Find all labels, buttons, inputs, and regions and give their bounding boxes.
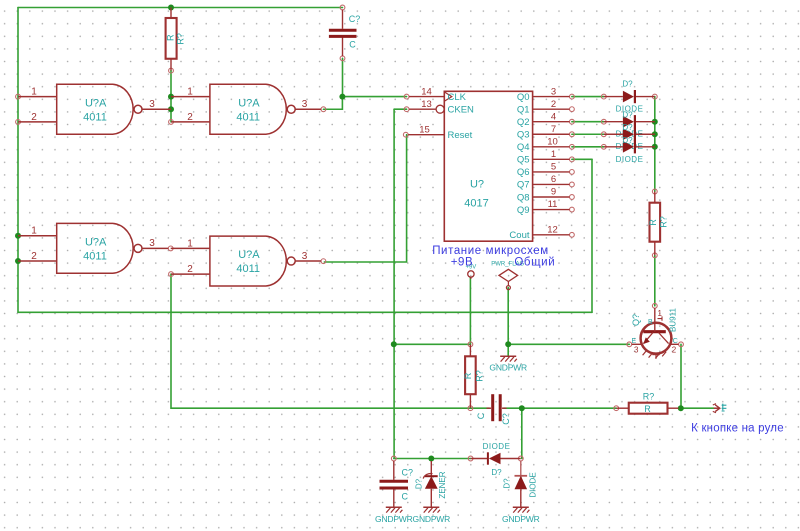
svg-text:BU911: BU911: [668, 308, 677, 332]
capacitor C2 (middle, vertical plates): [476, 394, 511, 425]
junction collector-R node: [678, 405, 684, 411]
svg-text:GNDPWR: GNDPWR: [413, 514, 451, 524]
svg-text:Q6: Q6: [517, 167, 530, 178]
pin numbers: [419, 86, 558, 235]
svg-text:1: 1: [187, 87, 193, 98]
junction gate2 pin1 node: [168, 94, 174, 100]
svg-text:C?: C?: [402, 468, 414, 478]
node C3 top end: [391, 456, 396, 461]
svg-text:E: E: [632, 338, 637, 345]
svg-text:Питание микросхем: Питание микросхем: [432, 245, 549, 257]
node gate4 pin1 end: [168, 246, 173, 251]
wire bottom long horizontal right part: [504, 407, 617, 409]
svg-text:U?A: U?A: [85, 236, 107, 248]
junction CLK node: [339, 94, 345, 100]
svg-text:2: 2: [672, 346, 677, 355]
junction gate1 output node: [168, 106, 174, 112]
node LED3 anode end: [601, 132, 606, 137]
svg-text:Q3: Q3: [517, 130, 530, 141]
svg-text:Q2: Q2: [517, 117, 530, 128]
wire R1 bottom to gate2 inputs: [170, 71, 172, 122]
node C7 bottom end: [340, 56, 345, 61]
svg-text:3: 3: [149, 99, 155, 110]
svg-text:D?: D?: [415, 478, 424, 489]
wire CKEN vertical long: [393, 109, 395, 458]
svg-text:1: 1: [658, 309, 663, 318]
node R3 top end: [652, 189, 657, 194]
LED D4 (row Q4): [604, 136, 655, 164]
svg-text:U?A: U?A: [238, 97, 260, 109]
svg-text:1: 1: [31, 87, 37, 98]
svg-text:2: 2: [31, 112, 37, 123]
svg-text:D?: D?: [622, 80, 633, 89]
LED D1 (row Q0): [604, 80, 655, 114]
node gate1 pin1 end: [16, 94, 21, 99]
junction CKEN-9V node: [391, 341, 397, 347]
junction R1 top: [168, 5, 174, 11]
wire +9V drop: [469, 278, 471, 345]
svg-text:3: 3: [302, 251, 308, 262]
LED D2 (row Q2): [604, 111, 655, 139]
node LED2 anode end: [601, 119, 606, 124]
node R3 bottom end: [652, 253, 657, 258]
svg-text:Q7: Q7: [517, 180, 530, 191]
svg-text:R?: R?: [475, 370, 485, 382]
node gate4 pin2 end: [169, 272, 174, 277]
collector diagonal: [659, 333, 669, 344]
right pins Q0-Q9 and Cout: [533, 97, 570, 235]
pin names: [448, 92, 530, 241]
node D5 left end: [468, 456, 473, 461]
ground GNDPWR (under D6): [502, 507, 540, 524]
svg-text:4011: 4011: [236, 263, 260, 275]
svg-text:Q0: Q0: [517, 92, 530, 103]
pin 15 Reset: [408, 134, 444, 136]
svg-text:1: 1: [187, 238, 193, 249]
svg-text:7: 7: [551, 124, 556, 135]
wire Q3 to LED3: [572, 133, 604, 135]
svg-text:Reset: Reset: [448, 130, 473, 141]
junction LED3 cathode: [652, 131, 658, 137]
svg-text:15: 15: [419, 124, 430, 135]
wire Q5 stub: [572, 158, 592, 160]
wire LED cathodes vertical: [654, 97, 656, 192]
diode D6 (bottom right vertical): [503, 461, 538, 507]
node gate4 output end: [321, 259, 326, 264]
node LED1 cathode end: [601, 144, 606, 149]
bottom hatches: [643, 350, 667, 358]
wire bottom long horizontal left part: [171, 407, 490, 409]
svg-text:C?: C?: [349, 14, 361, 24]
svg-text:GNDPWR: GNDPWR: [502, 514, 540, 524]
capacitor C1 (top): [329, 10, 360, 57]
svg-text:C: C: [673, 338, 678, 345]
collector pin: [671, 343, 679, 345]
ground GNDPWR (under C3): [375, 507, 413, 524]
ground GNDPWR (under zener): [413, 507, 451, 524]
wire gate2 output to CLK: [323, 97, 406, 110]
NAND gate U1B 4011 (top-second): [171, 84, 321, 134]
junction zener top: [428, 456, 434, 462]
svg-text:К кнопке на руле: К кнопке на руле: [691, 423, 784, 435]
svg-text:DIODE: DIODE: [616, 155, 644, 164]
svg-text:D?: D?: [491, 468, 502, 477]
svg-text:3: 3: [551, 86, 556, 97]
node R2 bottom end: [468, 406, 473, 411]
svg-text:4011: 4011: [236, 111, 260, 123]
NAND gate U1A 4011 (top-left): [18, 84, 171, 134]
svg-text:C: C: [476, 412, 486, 419]
node LED4 anode end: [652, 94, 657, 99]
node LED1 anode end: [601, 94, 606, 99]
IC U2 4017: [408, 86, 569, 241]
svg-text:Q1: Q1: [517, 104, 530, 115]
junction gate3 pin2 node: [15, 258, 21, 264]
node CKEN pin end: [404, 107, 409, 112]
wire Q5 vertical: [591, 159, 593, 312]
wire +9V to R mid horizontal: [394, 343, 471, 345]
svg-text:B: B: [648, 319, 653, 326]
svg-text:4017: 4017: [464, 198, 488, 210]
node R4 left end: [614, 406, 619, 411]
NAND gate U1D 4011 (bottom-second): [171, 236, 322, 286]
base pin: [654, 308, 656, 332]
wire C2 drop: [521, 408, 523, 458]
node collector end: [679, 342, 684, 347]
pin 13 CKEN: [409, 108, 436, 110]
node base end: [652, 303, 657, 308]
svg-text:10: 10: [547, 137, 558, 148]
junction C2 top: [519, 405, 525, 411]
NAND gate U1C 4011 (bottom-left): [18, 223, 168, 273]
power symbol +9V: [465, 264, 476, 279]
svg-text:12: 12: [547, 225, 558, 236]
node gate2 output end: [321, 107, 326, 112]
svg-text:R: R: [463, 372, 473, 379]
svg-text:GNDPWR: GNDPWR: [375, 514, 413, 524]
ground GNDPWR (mid, under PWR_FLAG): [489, 356, 527, 372]
svg-text:3: 3: [634, 346, 639, 355]
text power label: [432, 245, 555, 269]
svg-text:Q?: Q?: [631, 314, 641, 326]
svg-text:C: C: [402, 492, 409, 502]
svg-text:6: 6: [551, 174, 556, 185]
svg-text:DIODE: DIODE: [483, 442, 511, 451]
svg-text:Cout: Cout: [509, 230, 529, 241]
capacitor C3 (bottom-left, horizontal plates): [380, 461, 414, 507]
svg-text:U?A: U?A: [85, 97, 107, 109]
LED D3 (row Q3): [604, 123, 655, 151]
svg-text:13: 13: [421, 99, 432, 110]
emitter diagonal with arrow: [644, 333, 654, 344]
node D6 top end: [518, 456, 523, 461]
svg-text:1: 1: [551, 149, 556, 160]
wire CKEN stub: [394, 108, 407, 110]
svg-text:Q8: Q8: [517, 192, 530, 203]
resistor R2 (middle vertical): [463, 344, 485, 408]
svg-text:2: 2: [187, 112, 193, 123]
svg-text:ZENER: ZENER: [438, 471, 447, 498]
wire C7 bottom: [342, 58, 344, 96]
svg-text:R?: R?: [659, 216, 669, 228]
zener diode D5: [415, 461, 448, 507]
svg-text:C: C: [349, 39, 356, 49]
svg-text:D?: D?: [503, 478, 512, 489]
transistor Q1 BU911: [631, 308, 679, 359]
junction gate3 pin1 node: [15, 233, 21, 239]
node R1 bottom end: [169, 68, 174, 73]
svg-text:CLK: CLK: [448, 92, 467, 103]
svg-text:R: R: [648, 219, 658, 226]
node Reset pin end: [403, 132, 408, 137]
emitter pin: [632, 343, 642, 345]
resistor R1 (top-left vertical): [165, 8, 185, 71]
wire PWR_FLAG drop: [507, 288, 509, 356]
wire Q2 to LED2: [572, 121, 604, 123]
clock triangle pin 14: [444, 92, 452, 101]
svg-text:9: 9: [551, 187, 556, 198]
svg-text:Q5: Q5: [517, 155, 530, 166]
wire Q4 to LED4: [572, 146, 604, 148]
svg-text:R: R: [644, 404, 651, 414]
svg-text:4011: 4011: [83, 250, 107, 262]
svg-text:D?: D?: [622, 136, 633, 145]
svg-text:14: 14: [421, 86, 432, 97]
CKEN bubble: [436, 105, 444, 113]
node gate2 pin2 end: [169, 120, 174, 125]
node emitter end: [627, 342, 632, 347]
wire bottom diode row: [394, 458, 471, 460]
svg-text:3: 3: [149, 238, 155, 249]
internal tick: [658, 316, 663, 320]
wire gate4 pin2 vertical: [170, 274, 172, 408]
svg-text:Q4: Q4: [517, 142, 530, 153]
svg-text:R?: R?: [176, 33, 186, 45]
svg-text:4011: 4011: [83, 111, 107, 123]
svg-text:+9В: +9В: [451, 257, 474, 269]
svg-text:CKEN: CKEN: [448, 105, 475, 116]
svg-text:D?: D?: [622, 111, 633, 120]
base bar: [643, 330, 665, 333]
svg-text:11: 11: [548, 199, 558, 210]
resistor R3 (right vertical): [648, 192, 669, 256]
hierarchical label arrow (to steering wheel button): [713, 404, 727, 413]
node R2 top end: [468, 342, 473, 347]
pin 14 CLK: [409, 96, 444, 98]
svg-text:U?: U?: [470, 179, 484, 191]
wire bottom feedback horizontal: [18, 311, 592, 313]
svg-text:D?: D?: [622, 123, 633, 132]
svg-text:2: 2: [551, 99, 556, 110]
power flag PWR_FLAG: [491, 261, 524, 289]
wire gate4 output to Reset: [324, 135, 406, 262]
junction LED4 cathode: [652, 144, 658, 150]
node U2 right pin ends: [570, 94, 575, 237]
svg-text:DIODE: DIODE: [529, 472, 538, 497]
svg-text:R?: R?: [643, 392, 655, 402]
wire ground to emitter: [508, 343, 629, 345]
diode D5 (horizontal, bottom middle): [471, 442, 521, 477]
svg-text:2: 2: [31, 251, 37, 262]
node gate1 pin2 end: [16, 120, 21, 125]
node C7 top end: [340, 5, 345, 10]
svg-text:Q9: Q9: [517, 205, 530, 216]
wire Q0 to LED1: [572, 96, 604, 98]
svg-text:Общий: Общий: [514, 257, 555, 269]
junction ground node: [505, 341, 511, 347]
svg-text:C?: C?: [501, 413, 511, 425]
svg-text:U?A: U?A: [238, 249, 260, 261]
wire collector down and right: [681, 344, 714, 408]
junction LED2 cathode: [652, 119, 658, 125]
node CLK pin end: [404, 94, 409, 99]
resistor R4 (horizontal): [616, 392, 678, 414]
svg-text:2: 2: [187, 264, 193, 275]
svg-text:3: 3: [302, 99, 308, 110]
wire left feedback vertical: [17, 8, 19, 313]
wire base vertical: [654, 255, 656, 305]
svg-text:1: 1: [31, 226, 37, 237]
svg-text:4: 4: [551, 111, 556, 122]
svg-text:GNDPWR: GNDPWR: [489, 362, 527, 372]
wire top feedback horizontal: [18, 7, 343, 9]
svg-text:5: 5: [551, 162, 556, 173]
svg-text:R: R: [165, 34, 175, 41]
